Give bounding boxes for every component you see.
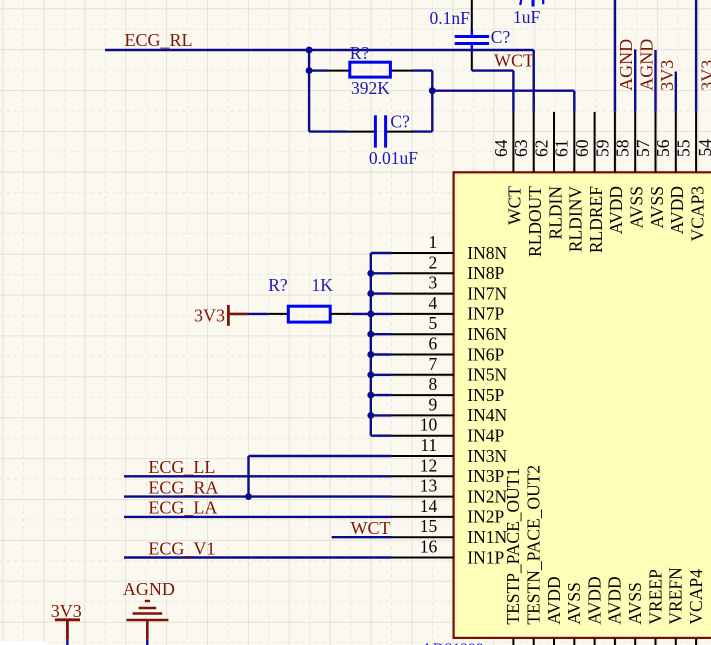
wire from AGND symbol [146, 640, 148, 645]
svg-text:4: 4 [428, 293, 437, 313]
svg-text:12: 12 [420, 455, 438, 475]
svg-text:3V3: 3V3 [657, 60, 677, 91]
svg-text:C?: C? [491, 27, 511, 47]
svg-text:IN2P: IN2P [467, 507, 504, 527]
pin (VREEP) bottom side [645, 569, 665, 645]
svg-text:AGND: AGND [123, 579, 175, 599]
pin (AVDD) bottom side [544, 576, 564, 645]
wire net ECG_RL / RLD to pin 63 [105, 50, 534, 112]
pin 55 (VCAP3) top side [674, 112, 708, 242]
wire AGND to pin 59 [614, 0, 616, 112]
svg-text:55: 55 [674, 139, 694, 157]
svg-text:AVSS: AVSS [647, 186, 667, 229]
pin 56 (AVDD) top side [653, 112, 687, 234]
svg-text:7: 7 [428, 354, 437, 374]
ground symbol AGND (earth style) [123, 579, 175, 640]
pin 61 (RLDINV) top side [552, 112, 586, 252]
svg-text:13: 13 [420, 476, 438, 496]
svg-text:11: 11 [420, 435, 437, 455]
svg-text:VREFN: VREFN [666, 567, 686, 625]
wire net ECG_LL to pin 12 [124, 475, 392, 477]
svg-text:9: 9 [428, 394, 437, 414]
svg-text:ECG_V1: ECG_V1 [148, 538, 215, 558]
junction bus/pin 3 [367, 290, 374, 297]
svg-text:14: 14 [420, 496, 438, 516]
svg-text:AVSS: AVSS [564, 582, 584, 625]
svg-text:RLDREF: RLDREF [586, 186, 606, 253]
svg-text:IN8P: IN8P [467, 263, 504, 283]
pin (VCAP4) bottom side [686, 569, 706, 645]
svg-text:IN8N: IN8N [467, 243, 507, 263]
svg-text:WCT: WCT [351, 518, 391, 538]
svg-text:58: 58 [613, 139, 633, 157]
svg-text:AVSS: AVSS [625, 582, 645, 625]
svg-text:10: 10 [420, 415, 438, 435]
wire net WCT to pin 61 [432, 91, 574, 112]
svg-text:6: 6 [428, 334, 437, 354]
wire AGND to pin 58 [634, 49, 636, 112]
pin 59 (AVDD) top side [592, 112, 626, 234]
svg-text:3V3: 3V3 [51, 601, 82, 621]
svg-text:0.01uF: 0.01uF [369, 148, 418, 168]
pin 8 (IN5P) left side [392, 374, 505, 405]
pin 16 (IN1P) left side [392, 537, 505, 568]
svg-text:RLDINV: RLDINV [566, 186, 586, 252]
wire 3V3 to pin 57 [654, 50, 656, 112]
svg-text:62: 62 [531, 140, 551, 158]
junction bus/pin 6 [367, 351, 374, 358]
pin 62 (RLDIN) top side [531, 112, 565, 240]
svg-text:TESTN_PACE_OUT2: TESTN_PACE_OUT2 [524, 465, 544, 625]
pin 63 (RLDOUT) top side [511, 112, 545, 257]
svg-text:IN7P: IN7P [467, 304, 504, 324]
wire left branch of RC network [309, 50, 432, 132]
power port 3V3 (bar style, left) [194, 305, 247, 326]
svg-text:1: 1 [428, 232, 437, 252]
capacitor C? 0.1nF [455, 0, 489, 71]
svg-text:IN2N: IN2N [467, 486, 507, 506]
pin 4 (IN7P) left side [392, 293, 505, 324]
junction ECG_RA branch [245, 493, 252, 500]
svg-text:2: 2 [428, 252, 437, 272]
pin 64 (WCT) top side [491, 112, 525, 225]
junction bus/pin 9 [367, 412, 374, 419]
pin 3 (IN7N) left side [392, 273, 508, 304]
svg-text:IN1N: IN1N [467, 527, 507, 547]
svg-text:3V3: 3V3 [697, 60, 711, 91]
svg-text:IN5N: IN5N [467, 365, 507, 385]
svg-text:AGND: AGND [616, 39, 636, 91]
pin 2 (IN8P) left side [392, 252, 505, 283]
svg-text:IN6P: IN6P [467, 344, 504, 364]
svg-text:TESTP_PACE_OUT1: TESTP_PACE_OUT1 [503, 468, 523, 625]
svg-text:IN4N: IN4N [467, 405, 507, 425]
svg-text:IN4P: IN4P [467, 426, 504, 446]
pin 11 (IN3N) left side [392, 435, 508, 466]
svg-text:57: 57 [633, 139, 653, 157]
wire branch ECG_RA to pin 11 [249, 456, 392, 497]
svg-text:IN6N: IN6N [467, 324, 507, 344]
svg-text:3: 3 [428, 273, 437, 293]
pin 1 (IN8N) left side [392, 232, 508, 263]
svg-text:60: 60 [572, 139, 592, 157]
pin (AVDD) bottom side [605, 576, 625, 645]
wire 3V3 to R? 1K [247, 313, 268, 315]
svg-text:WCT: WCT [505, 186, 525, 225]
svg-text:VREEP: VREEP [645, 569, 665, 625]
power port 3V3 (bar style, bottom left) [51, 601, 82, 640]
resistor R? 392K [327, 62, 412, 77]
svg-text:RLDIN: RLDIN [545, 186, 565, 240]
svg-text:8: 8 [428, 374, 437, 394]
svg-text:R?: R? [350, 43, 370, 63]
svg-text:16: 16 [420, 537, 438, 557]
svg-text:IN7N: IN7N [467, 283, 507, 303]
svg-text:AVDD: AVDD [584, 576, 604, 624]
svg-text:63: 63 [511, 139, 531, 157]
svg-text:61: 61 [552, 140, 572, 158]
junction at R? right / WCT wire [429, 87, 436, 94]
pin (AVDD) bottom side [584, 576, 604, 645]
svg-text:R?: R? [268, 275, 288, 295]
resistor R? 1K [268, 306, 352, 322]
svg-text:IN3N: IN3N [467, 446, 507, 466]
svg-text:RLDOUT: RLDOUT [525, 186, 545, 257]
junction bus/pin 7 [367, 371, 374, 378]
pin 14 (IN2P) left side [392, 496, 505, 527]
svg-text:VCAP4: VCAP4 [686, 569, 706, 625]
pin 60 (RLDREF) top side [572, 112, 606, 253]
pin (TESTP_PACE_OUT1) bottom side [503, 468, 523, 645]
svg-text:59: 59 [592, 139, 612, 157]
svg-text:0.1nF: 0.1nF [430, 8, 471, 28]
pin 7 (IN5N) left side [392, 354, 508, 385]
svg-text:VCAP3: VCAP3 [687, 186, 707, 242]
svg-text:54: 54 [695, 139, 711, 157]
pin (VREFN) bottom side [666, 567, 686, 645]
pin 6 (IN6P) left side [392, 334, 505, 365]
pin 9 (IN4N) left side [392, 394, 508, 425]
svg-text:AVDD: AVDD [606, 186, 626, 234]
bus wire joining pins 1-10 [371, 253, 392, 436]
pin 12 (IN3P) left side [392, 455, 505, 486]
svg-text:ADS1298: ADS1298 [422, 641, 484, 645]
svg-text:392K: 392K [351, 78, 390, 98]
svg-text:ECG_LA: ECG_LA [148, 498, 217, 518]
svg-text:C?: C? [390, 112, 410, 132]
svg-text:ECG_LL: ECG_LL [148, 457, 215, 477]
junction bus/pin 8 [367, 392, 374, 399]
pin 5 (IN6N) left side [392, 313, 508, 344]
svg-text:AVDD: AVDD [544, 576, 564, 624]
svg-text:64: 64 [491, 139, 511, 157]
junction on ECG_RL wire [306, 47, 313, 54]
svg-text:AVSS: AVSS [627, 186, 647, 229]
wire from 3V3 port [66, 640, 68, 645]
capacitor C? 1uF (cut off at top edge) [520, 0, 543, 7]
IC U? ADS1298 body [422, 172, 711, 645]
svg-text:ECG_RA: ECG_RA [148, 477, 218, 497]
svg-text:IN3P: IN3P [467, 466, 504, 486]
junction at R? left lead [306, 67, 313, 74]
svg-text:AVDD: AVDD [605, 576, 625, 624]
svg-text:15: 15 [420, 516, 438, 536]
wire net ECG_LA to pin 14 [124, 516, 392, 518]
pin (TESTN_PACE_OUT2) bottom side [524, 465, 544, 645]
svg-text:1K: 1K [312, 275, 334, 295]
svg-text:5: 5 [428, 313, 437, 333]
pin 10 (IN4P) left side [392, 415, 505, 446]
svg-text:ECG_RL: ECG_RL [125, 30, 193, 50]
svg-text:IN1P: IN1P [467, 547, 504, 567]
wire 1K to input bus [352, 313, 371, 315]
wire to pin 56 [675, 72, 677, 112]
wire net ECG_V1 to pin 16 [124, 556, 392, 558]
junction bus/pin 5 [367, 331, 374, 338]
pin 57 (AVSS) top side [633, 112, 667, 229]
pin (AVSS) bottom side [564, 582, 584, 645]
pin 58 (AVSS) top side [613, 112, 647, 229]
svg-text:IN5P: IN5P [467, 385, 504, 405]
pin 13 (IN2N) left side [392, 476, 508, 507]
capacitor C? 0.01uF [346, 115, 412, 147]
svg-text:AGND: AGND [637, 39, 657, 91]
wire 3V3 to pin 55 [695, 0, 697, 112]
svg-text:1uF: 1uF [513, 7, 541, 27]
svg-text:3V3: 3V3 [194, 306, 225, 326]
wire net WCT to pin 15 [332, 536, 392, 538]
pin 54 number (pin line off-canvas) [695, 139, 711, 242]
wire 0.1nF cap to pin 64 [472, 71, 514, 112]
pin (AVSS) bottom side [625, 582, 645, 645]
wire net ECG_RA to pin 13 [124, 495, 392, 497]
svg-text:WCT: WCT [494, 51, 534, 71]
junction bus/pin 2 [367, 270, 374, 277]
svg-text:AVDD: AVDD [667, 186, 687, 234]
junction bus/pin 4 [367, 310, 374, 317]
pin 15 (IN1N) left side [392, 516, 508, 547]
svg-text:56: 56 [653, 139, 673, 157]
